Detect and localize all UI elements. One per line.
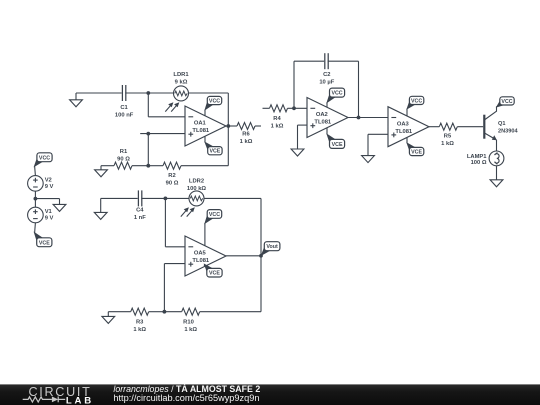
ground at C4: [94, 198, 107, 219]
svg-text:TL081: TL081: [192, 258, 210, 264]
wire OA1 non-inverting input stub: [140, 133, 185, 135]
label R3 value: [133, 319, 146, 333]
wire node to LDR2: [165, 197, 189, 199]
op-amp OA5: [185, 236, 226, 276]
wire R3 to node: [149, 311, 165, 313]
ground at OA3 non-inverting input: [362, 155, 375, 162]
junction at Vout: [259, 254, 263, 258]
junction between V2 and V1: [34, 197, 38, 201]
wire R4 to OA2 inverting input: [288, 107, 308, 109]
wire ground to C1: [76, 92, 122, 94]
wire ground to C4: [101, 197, 138, 199]
svg-text:2N3904: 2N3904: [498, 129, 518, 135]
svg-text:LAMP1: LAMP1: [467, 154, 487, 160]
svg-text:VCE: VCE: [209, 271, 220, 277]
net flag VCC at V2: [34, 153, 52, 167]
label R6 value: [240, 132, 253, 146]
ground at LAMP1: [490, 180, 503, 187]
wire node to R10: [164, 311, 181, 313]
svg-text:R10: R10: [183, 319, 194, 325]
svg-text:VCC: VCC: [331, 91, 342, 97]
svg-text:TL081: TL081: [395, 129, 413, 135]
label LAMP1 value: [467, 154, 487, 166]
label LDR2 value: [187, 179, 207, 193]
net flag VCE at OA2: [327, 134, 345, 148]
net flag VCE at OA3: [407, 143, 424, 156]
junction OA2 output / C2: [357, 116, 361, 120]
svg-text:C4: C4: [136, 207, 144, 213]
svg-text:R4: R4: [273, 116, 281, 122]
net flag VCC at OA3: [407, 96, 424, 109]
label C4 value: [134, 207, 146, 221]
wire OA2 output to OA3: [348, 117, 388, 119]
svg-text:100 Ω: 100 Ω: [471, 160, 487, 166]
svg-text:9 V: 9 V: [45, 184, 54, 190]
resistor R10: [182, 308, 200, 315]
wire to OA1 inverting input: [148, 93, 185, 117]
wire R4 left lead: [263, 107, 270, 109]
wire ground to R1: [101, 165, 114, 167]
resistor R5: [439, 123, 457, 130]
ground at supply midpoint: [53, 199, 66, 212]
ground at R3: [102, 312, 115, 324]
svg-text:LAB: LAB: [66, 396, 94, 405]
label R5 value: [441, 133, 454, 147]
op-amp OA1: [185, 106, 226, 146]
svg-text:R5: R5: [444, 133, 452, 139]
svg-text:C2: C2: [323, 72, 330, 78]
voltage source V1: [28, 207, 44, 223]
voltage source V2: [28, 176, 44, 192]
resistor R4: [270, 105, 288, 112]
svg-text:http://circuitlab.com/c5r65wyp: http://circuitlab.com/c5r65wyp9zq9n: [113, 393, 259, 403]
svg-text:100 nF: 100 nF: [115, 112, 134, 118]
label C1 value: [115, 105, 134, 119]
svg-text:90 Ω: 90 Ω: [166, 181, 179, 187]
label C2 value: [319, 72, 334, 86]
svg-text:LDR2: LDR2: [189, 179, 204, 185]
svg-text:OA1: OA1: [194, 121, 207, 127]
label R2 value: [166, 173, 179, 187]
wire OA2 non-inverting to ground: [298, 125, 308, 149]
wire down to R1/R2 node: [147, 134, 149, 166]
net flag VCE at V1: [34, 233, 52, 247]
footer credit text: [113, 384, 260, 403]
wire V2 top lead: [34, 166, 37, 176]
svg-text:9 kΩ: 9 kΩ: [175, 80, 188, 86]
net flag VCE at OA1: [205, 142, 222, 155]
wire LAMP1 to ground: [496, 166, 498, 180]
svg-text:1 kΩ: 1 kΩ: [184, 327, 197, 333]
junction R4/C2: [292, 106, 296, 110]
wire node to R2: [148, 165, 163, 167]
op-amp OA2: [307, 98, 348, 138]
svg-text:VCC: VCC: [209, 99, 220, 105]
wire LDR2 to Vout corner: [204, 198, 261, 255]
svg-text:VCC: VCC: [39, 155, 50, 161]
capacitor C1: [122, 85, 125, 101]
wire C2 to output node: [328, 61, 359, 117]
net flag Vout: [261, 242, 280, 256]
capacitor C4: [138, 190, 141, 206]
wire OA5 non-inverting input: [164, 264, 185, 312]
junction at C1/LDR1/inverting input: [146, 91, 150, 95]
svg-text:OA3: OA3: [397, 121, 410, 127]
label LDR1 value: [173, 72, 189, 86]
ground at OA2 non-inverting input: [291, 149, 304, 156]
wire R6 right open end: [255, 125, 261, 127]
wire OA5 output: [226, 255, 261, 257]
wire node to LDR1: [148, 92, 173, 94]
label R1 value: [117, 149, 130, 163]
lamp LAMP1: [489, 151, 504, 166]
svg-text:V2: V2: [45, 178, 52, 184]
ground at R1: [95, 166, 108, 177]
svg-text:Vout: Vout: [266, 244, 278, 250]
junction at non-inverting input: [146, 132, 150, 136]
transistor Q1: [484, 106, 497, 151]
label R4 value: [271, 116, 284, 130]
svg-text:1 kΩ: 1 kΩ: [271, 124, 284, 130]
svg-text:R1: R1: [120, 149, 128, 155]
wire feedback up to C2: [294, 61, 324, 108]
net flag VCC at OA5: [205, 210, 222, 224]
svg-text:Q1: Q1: [498, 121, 505, 127]
svg-text:VCE: VCE: [39, 240, 50, 246]
wire ground to R3: [108, 311, 130, 313]
svg-text:VCE: VCE: [332, 142, 343, 148]
svg-text:90 Ω: 90 Ω: [117, 157, 130, 163]
svg-text:OA5: OA5: [194, 251, 207, 257]
wire LDR1 to output feedback corner: [189, 93, 229, 126]
wire OA1 output: [226, 125, 237, 127]
svg-text:VCC: VCC: [209, 212, 220, 218]
wire V2 to V1: [34, 191, 36, 207]
junction at OA1 output: [226, 124, 230, 128]
svg-text:1 kΩ: 1 kΩ: [133, 327, 146, 333]
svg-text:VCE: VCE: [209, 149, 220, 155]
wire R5 to Q1 base: [457, 126, 483, 128]
svg-text:100 kΩ: 100 kΩ: [187, 186, 207, 192]
op-amp OA3: [388, 107, 429, 147]
resistor R1: [114, 162, 132, 169]
label Q1 value: [498, 121, 518, 135]
svg-text:1 kΩ: 1 kΩ: [441, 141, 454, 147]
label V2 value: [45, 178, 54, 190]
label R10 value: [183, 319, 197, 333]
wire C4 to node: [141, 197, 165, 199]
svg-text:LDR1: LDR1: [173, 72, 189, 78]
label V1 value: [45, 209, 54, 221]
CircuitLab logo: [23, 385, 94, 405]
junction R3/R10/non-inverting: [163, 310, 167, 314]
svg-text:R6: R6: [242, 132, 250, 138]
svg-text:R2: R2: [168, 173, 175, 179]
wire R10 to Vout corner: [200, 311, 261, 313]
photoresistor LDR1: [165, 86, 188, 112]
net flag VCC at Q1: [497, 97, 515, 107]
svg-text:VCC: VCC: [501, 99, 512, 105]
svg-text:VCC: VCC: [411, 98, 422, 104]
wire C1 to node: [125, 92, 148, 94]
svg-text:TL081: TL081: [192, 128, 210, 134]
wire to OA5 inverting input: [165, 198, 185, 246]
wire OA3 output: [429, 126, 439, 128]
wire V1 bottom lead: [34, 223, 37, 233]
resistor R2: [163, 162, 181, 169]
svg-text:TL081: TL081: [314, 120, 332, 126]
wire Vout down to R10: [260, 256, 262, 312]
resistor R6: [237, 123, 255, 130]
footer bar: [0, 384, 540, 405]
svg-text:VCE: VCE: [411, 150, 422, 156]
net flag VCC at OA2: [327, 88, 345, 102]
svg-text:C1: C1: [120, 105, 128, 111]
junction R1/R2: [146, 164, 150, 168]
net flag VCE at OA5: [204, 264, 222, 277]
svg-text:1 nF: 1 nF: [134, 215, 146, 221]
wire R2 to feedback corner: [181, 126, 228, 166]
net flag VCC at OA1: [205, 96, 222, 109]
ground at C1: [70, 93, 83, 107]
junction C4/LDR2/inverting input: [164, 197, 168, 201]
wire OA3 non-inverting to ground: [368, 134, 388, 155]
capacitor C2: [325, 53, 328, 69]
wire junction to ground: [35, 198, 59, 200]
svg-text:R3: R3: [136, 319, 144, 325]
svg-text:10 µF: 10 µF: [319, 79, 334, 85]
svg-text:9 V: 9 V: [45, 216, 54, 222]
svg-text:OA2: OA2: [316, 112, 328, 118]
wire R1 to node: [132, 165, 148, 167]
photoresistor LDR2: [181, 191, 204, 217]
svg-text:1 kΩ: 1 kΩ: [240, 139, 253, 145]
resistor R3: [131, 308, 149, 315]
svg-text:V1: V1: [45, 209, 53, 215]
